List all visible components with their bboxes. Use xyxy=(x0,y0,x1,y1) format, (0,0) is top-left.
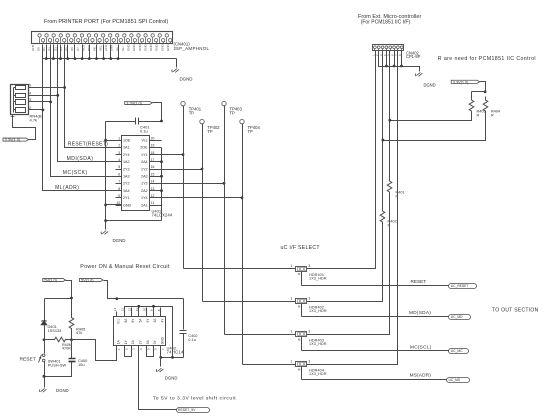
wire C402 bottom to ground xyxy=(183,334,185,358)
svg-text:RESET: RESET xyxy=(411,279,427,284)
svg-text:R are need for PCM1851 IIC Con: R are need for PCM1851 IIC Control xyxy=(438,56,536,62)
svg-text:1: 1 xyxy=(291,359,293,363)
wire TP401 to HDR401 pin1 xyxy=(184,268,296,270)
svg-text:PUSH-SW: PUSH-SW xyxy=(48,362,67,367)
svg-text:GND: GND xyxy=(160,44,164,52)
svg-text:74HC14: 74HC14 xyxy=(167,349,185,354)
svg-text:UC_MC: UC_MC xyxy=(451,349,463,353)
svg-text:1A3: 1A3 xyxy=(123,175,130,179)
IC U401 74LCX244 buffer xyxy=(122,136,150,211)
svg-text:1X3_HDR: 1X3_HDR xyxy=(309,309,327,313)
wire tie rail to ground rail xyxy=(106,220,162,222)
svg-text:AFD: AFD xyxy=(104,44,108,51)
capacitor C401 0.1u xyxy=(135,118,137,125)
wire CN402 ground pins bus to DGND xyxy=(379,51,420,72)
U401 pin stubs and pin numbers xyxy=(116,136,156,205)
svg-text:MD(SDA): MD(SDA) xyxy=(409,310,431,315)
svg-text:Vcc: Vcc xyxy=(141,139,147,143)
svg-text:3.3V(1.0): 3.3V(1.0) xyxy=(126,101,142,105)
svg-text:3.3V(1.0): 3.3V(1.0) xyxy=(453,80,469,84)
wire MD(SDA) to flag xyxy=(302,316,449,318)
svg-text:5V(1.0): 5V(1.0) xyxy=(44,279,57,283)
svg-text:3: 3 xyxy=(308,264,310,268)
power flag 3.3V(1.0) pullups xyxy=(451,80,479,83)
svg-text:uC I/F SELECT: uC I/F SELECT xyxy=(281,245,321,251)
jumper HDR401 1X3_HDR xyxy=(296,267,307,272)
wire HDR403 pin3 xyxy=(307,334,390,336)
test point TP402 xyxy=(200,119,204,123)
wire uC ADR to HDR404 pin3 xyxy=(307,51,398,365)
svg-text:10: 10 xyxy=(142,308,146,312)
net flag UC_MD xyxy=(449,315,471,320)
svg-text:2Y1: 2Y1 xyxy=(123,196,130,200)
wire RN401 pin to signal xyxy=(29,95,58,97)
svg-text:GND: GND xyxy=(166,44,170,52)
wire U402 inv1-inv2 chain xyxy=(125,346,132,357)
svg-text:TP: TP xyxy=(248,129,254,134)
wire C402 top xyxy=(183,299,185,330)
wire U402 unused inputs tie xyxy=(125,307,173,358)
wire 3.3V to U401 VCC xyxy=(153,103,162,122)
svg-text:74LCX244: 74LCX244 xyxy=(152,212,173,217)
wire 3.3V to pullups xyxy=(480,82,486,92)
svg-text:5: 5 xyxy=(118,165,120,169)
svg-text:DGND: DGND xyxy=(180,77,193,82)
net flag UC_MS xyxy=(447,378,470,383)
svg-text:DGND: DGND xyxy=(56,388,69,393)
wire U402 output to RESET_5V flag xyxy=(139,346,177,410)
CN401 pin name labels (rotated) xyxy=(31,44,170,52)
svg-text:GND: GND xyxy=(123,203,132,207)
ground DGND (CN402) xyxy=(415,72,422,76)
svg-text:DGND: DGND xyxy=(424,83,436,88)
resistor R404 pullup xyxy=(483,97,488,115)
svg-text:UC_RESET: UC_RESET xyxy=(451,284,469,288)
wire HDR404 pin3 xyxy=(307,364,398,366)
svg-text:3: 3 xyxy=(308,329,310,333)
ground bus of printer port xyxy=(43,58,177,60)
svg-text:1: 1 xyxy=(291,296,293,300)
wire RN401 pin to signal xyxy=(29,87,65,89)
svg-text:2Y2: 2Y2 xyxy=(123,182,130,186)
wire ML from CN401 xyxy=(43,45,122,191)
svg-text:GND: GND xyxy=(127,44,131,52)
wire CN401 ground pin to bus xyxy=(53,45,55,59)
wire MS(ADR) to flag xyxy=(302,379,447,381)
svg-text:3.3V(1.0): 3.3V(1.0) xyxy=(5,138,21,142)
resistor R405 47k xyxy=(69,317,74,330)
wire CN401 ground pin to bus xyxy=(103,45,105,59)
wire CN401 ground pin to bus xyxy=(74,45,76,59)
power flag 3.3V(1.0) above U401 xyxy=(125,101,153,104)
resistor network RN401 4.7k xyxy=(11,85,29,115)
wire TP404 to HDR404 pin1 xyxy=(243,364,296,366)
svg-text:2OE: 2OE xyxy=(140,146,148,150)
resistor R402 xyxy=(380,210,385,224)
wire 1Y1 to TP401 xyxy=(150,154,184,156)
net flag UC_MC xyxy=(449,349,469,354)
svg-text:4.7k: 4.7k xyxy=(30,117,38,122)
svg-text:MDI(SDA): MDI(SDA) xyxy=(67,156,94,162)
wire R405 to node xyxy=(71,330,73,340)
svg-text:1Y4: 1Y4 xyxy=(141,196,148,200)
svg-text:1A4: 1A4 xyxy=(123,189,130,193)
wire U402 GND pin xyxy=(160,346,162,367)
jumper HDR404 1X3_HDR xyxy=(296,362,307,367)
wire HDR401 pin3 xyxy=(307,268,376,270)
svg-text:GND: GND xyxy=(143,44,147,52)
svg-text:3: 3 xyxy=(29,98,31,102)
wire HDR402 center pin to output xyxy=(301,304,303,317)
svg-text:13: 13 xyxy=(120,308,124,312)
wire node to C400 xyxy=(71,340,73,359)
svg-text:16: 16 xyxy=(151,165,155,169)
svg-text:5V(1.0): 5V(1.0) xyxy=(81,279,94,283)
wire 5V to U402 VCC and C402 xyxy=(104,281,184,299)
wire 1Y4 to TP404 xyxy=(150,197,243,199)
capacitor C400 10u xyxy=(69,358,76,360)
svg-text:UC_MS: UC_MS xyxy=(449,378,461,382)
svg-text:2: 2 xyxy=(118,144,120,148)
svg-text:1A1: 1A1 xyxy=(123,146,130,150)
svg-text:R: R xyxy=(477,113,480,117)
svg-text:0.1u: 0.1u xyxy=(140,128,148,133)
svg-text:From PRINTER PORT (For PCM1851: From PRINTER PORT (For PCM1851 SPI Contr… xyxy=(44,19,168,25)
svg-text:2A2: 2A2 xyxy=(141,189,148,193)
IC U402 74HC14 hex inverter xyxy=(114,317,166,346)
svg-text:1X3_HDR: 1X3_HDR xyxy=(309,342,327,346)
wire 1OE to ground rail xyxy=(106,140,122,142)
wire CN401 ground pin to bus xyxy=(46,45,48,59)
svg-text:GND: GND xyxy=(138,44,142,52)
svg-text:1X3_HDR: 1X3_HDR xyxy=(309,277,327,281)
power flag 5V(1.0) left xyxy=(43,278,66,281)
wire TP403 to HDR403 pin1 xyxy=(225,334,296,336)
U401 pin labels xyxy=(123,139,148,208)
svg-text:MC(SCK): MC(SCK) xyxy=(63,170,88,176)
svg-text:GND: GND xyxy=(149,44,153,52)
wire RN401 pin to signal xyxy=(29,109,43,111)
wire CN401 ground pin to bus xyxy=(60,45,62,59)
svg-text:RESET_5V: RESET_5V xyxy=(178,408,196,412)
svg-text:47k: 47k xyxy=(76,330,82,335)
capacitor C402 0.1u xyxy=(180,330,187,332)
svg-text:1SS133: 1SS133 xyxy=(48,328,62,333)
svg-text:3: 3 xyxy=(308,359,310,363)
ground DGND (U402) xyxy=(156,368,163,372)
svg-text:MC(SCL): MC(SCL) xyxy=(410,344,432,349)
wire HDR403 center pin to output xyxy=(301,337,303,351)
resistor R403 pullup xyxy=(469,97,474,115)
wire CN401 ground pin to bus xyxy=(118,45,120,59)
jumper HDR402 1X3_HDR xyxy=(296,299,307,304)
wire MC(SCL) to flag xyxy=(302,350,449,352)
wire VCC pin20 xyxy=(150,140,162,142)
svg-text:GND: GND xyxy=(132,44,136,52)
U402 pin stubs and numbers xyxy=(113,308,165,351)
svg-text:TP: TP xyxy=(207,129,213,134)
wire 2OE/2A tie rail xyxy=(161,148,163,221)
wire MC from CN401 xyxy=(51,45,122,177)
svg-text:1: 1 xyxy=(291,264,293,268)
svg-text:UC_MD: UC_MD xyxy=(451,315,463,319)
svg-text:1Y3: 1Y3 xyxy=(141,182,148,186)
svg-text:GND: GND xyxy=(155,44,159,52)
svg-text:SLI: SLI xyxy=(121,46,125,51)
wire ground rail left of U401 xyxy=(105,122,107,230)
wire 5V top tie xyxy=(45,298,72,300)
net flag UC_RESET xyxy=(449,284,477,289)
svg-text:D6: D6 xyxy=(70,47,74,51)
svg-text:TP: TP xyxy=(230,111,236,116)
svg-text:ML(ADR): ML(ADR) xyxy=(55,185,79,191)
test point TP401 xyxy=(181,101,185,105)
svg-text:3: 3 xyxy=(118,151,120,155)
svg-text:5: 5 xyxy=(29,84,31,88)
wire RESET from CN401 xyxy=(65,45,122,148)
svg-text:2A1: 2A1 xyxy=(141,203,148,207)
svg-text:TP: TP xyxy=(189,111,195,116)
svg-text:DGND: DGND xyxy=(165,376,178,381)
wire MDI from CN401 xyxy=(58,45,122,162)
wire U402 inv3 spare loop xyxy=(147,346,154,357)
svg-text:1OE: 1OE xyxy=(123,139,131,143)
svg-text:D0: D0 xyxy=(36,47,40,51)
svg-text:RESET(RESET): RESET(RESET) xyxy=(68,141,108,147)
svg-text:4: 4 xyxy=(118,158,120,162)
resistor R401 xyxy=(387,180,392,194)
wire uC SCL with series resistor to HDR403 pin3 xyxy=(389,51,391,180)
svg-text:DGND: DGND xyxy=(113,238,126,243)
svg-text:To 5V to 3.3V level shift circ: To 5V to 3.3V level shift circuit xyxy=(153,395,236,401)
switch SW401 PUSH-SW xyxy=(44,340,46,354)
svg-text:MS(ADR): MS(ADR) xyxy=(410,373,432,378)
svg-text:GND: GND xyxy=(160,336,164,344)
wire HDR402 pin3 xyxy=(307,301,383,303)
svg-text:10u: 10u xyxy=(78,362,85,367)
svg-text:1X3_HDR: 1X3_HDR xyxy=(309,372,327,376)
wire CN401 ground pin to bus xyxy=(96,45,98,59)
CN402 pin labels (rotated) xyxy=(371,54,402,56)
svg-text:6: 6 xyxy=(118,172,120,176)
svg-text:12: 12 xyxy=(128,308,132,312)
test point TP404 xyxy=(240,119,244,123)
wire 1Y2 to TP402 xyxy=(150,169,203,171)
wire uC RESET to HDR401 pin3 xyxy=(307,51,376,269)
net flag RESET_5V xyxy=(177,408,210,413)
wire RN401 common pin to 3.3V flag xyxy=(13,115,36,140)
svg-text:CP1-8P: CP1-8P xyxy=(406,54,421,59)
svg-text:D2: D2 xyxy=(48,47,52,51)
svg-text:25P_AMPHNOL: 25P_AMPHNOL xyxy=(174,46,210,51)
ground DGND (U401) xyxy=(101,231,108,235)
wire CN401 ground pin to bus xyxy=(82,45,84,59)
svg-text:470R: 470R xyxy=(62,347,71,351)
svg-text:TO OUT SECTION: TO OUT SECTION xyxy=(492,307,539,313)
svg-text:R: R xyxy=(491,113,494,117)
svg-text:0.1u: 0.1u xyxy=(188,337,196,342)
svg-text:15: 15 xyxy=(151,172,155,176)
wire C400 to ground rail xyxy=(45,362,72,377)
connector CN401 25P printer port xyxy=(32,32,173,44)
svg-text:(For PCM1851 IIC I/F): (For PCM1851 IIC I/F) xyxy=(361,20,411,26)
resistor R406 470R xyxy=(45,339,54,341)
wire 5V to R405 xyxy=(66,281,72,317)
svg-text:D7: D7 xyxy=(76,47,80,51)
diode D401 1SS133 branch xyxy=(44,299,46,321)
svg-text:1Y2: 1Y2 xyxy=(141,167,148,171)
svg-text:2Y3: 2Y3 xyxy=(123,167,130,171)
wire bus to DGND xyxy=(176,59,178,68)
wire CN401 ground pin to bus xyxy=(89,45,91,59)
svg-text:RESET: RESET xyxy=(20,356,36,362)
test point TP403 xyxy=(222,101,226,105)
svg-text:1: 1 xyxy=(118,136,120,140)
wire GND pin10 to ground rail xyxy=(106,204,122,206)
wire 1Y3 to TP403 xyxy=(150,183,225,185)
svg-text:3: 3 xyxy=(308,296,310,300)
wire HDR404 center pin to output xyxy=(301,367,303,380)
connector CN402 CP1-8P xyxy=(373,45,404,51)
svg-text:SEL: SEL xyxy=(98,45,102,51)
svg-text:Power ON & Manual Reset Circui: Power ON & Manual Reset Circuit xyxy=(80,264,170,270)
svg-text:STB: STB xyxy=(31,45,35,51)
ground DGND (printer port) xyxy=(172,69,179,73)
jumper HDR403 1X3_HDR xyxy=(296,332,307,337)
wire RN401 pin to signal xyxy=(29,101,51,103)
svg-text:2: 2 xyxy=(29,106,31,110)
svg-text:7: 7 xyxy=(118,180,120,184)
wire C401 rail xyxy=(106,121,136,123)
power flag 3.3V(1.0) at RN401 xyxy=(3,138,29,141)
wire CN401 ground pin to bus xyxy=(67,45,69,59)
svg-text:4: 4 xyxy=(29,92,31,96)
ground DGND (reset circuit) xyxy=(39,388,46,392)
wire reset node to U402 input xyxy=(72,340,117,361)
svg-text:Vcc: Vcc xyxy=(117,318,121,324)
U402 pin labels xyxy=(117,318,165,344)
svg-text:9: 9 xyxy=(118,194,120,198)
svg-text:1A2: 1A2 xyxy=(123,160,130,164)
wire SW401 to ground xyxy=(44,362,46,388)
svg-text:14: 14 xyxy=(113,308,117,312)
svg-text:1: 1 xyxy=(291,329,293,333)
wire uC SDA with series resistor to HDR402 pin3 xyxy=(382,51,384,210)
svg-text:20: 20 xyxy=(151,136,155,140)
power flag 5V(1.0) right xyxy=(80,278,104,281)
svg-text:2A4: 2A4 xyxy=(141,160,148,164)
svg-text:2Y4: 2Y4 xyxy=(123,153,130,157)
svg-text:2A3: 2A3 xyxy=(141,175,148,179)
svg-text:8: 8 xyxy=(118,187,120,191)
wire HDR401 center pin to output xyxy=(301,272,303,286)
wire TP402 to HDR402 pin1 xyxy=(203,301,296,303)
wire CN401 ground pin to bus xyxy=(110,45,112,59)
svg-text:1Y1: 1Y1 xyxy=(141,153,148,157)
svg-text:11: 11 xyxy=(151,201,155,205)
wire RESET to flag xyxy=(302,285,449,287)
